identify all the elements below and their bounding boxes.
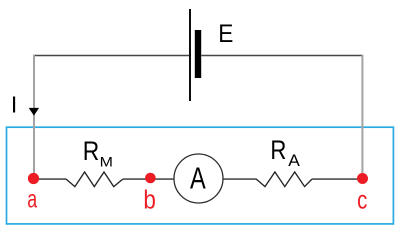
svg-text:I: I [11, 92, 17, 118]
svg-text:c: c [357, 185, 367, 215]
node c (red junction dot) [357, 173, 368, 184]
wire resistor RA to node c [312, 178, 362, 180]
svg-text:A: A [288, 152, 300, 170]
svg-text:b: b [143, 187, 156, 215]
node a (red junction dot) [28, 173, 39, 184]
battery E: long thin plate [189, 9, 191, 101]
wire right vertical [361, 55, 363, 179]
wire top horizontal, right of battery [201, 55, 363, 57]
resistor RA zigzag [256, 172, 312, 187]
blue box (ammeter assembly boundary) [7, 127, 394, 224]
svg-text:a: a [27, 186, 37, 214]
svg-text:M: M [100, 154, 113, 169]
wire top horizontal, left of battery [33, 55, 189, 57]
svg-text:R: R [83, 135, 100, 166]
ammeter A (circle) [174, 154, 223, 203]
wire resistor RM to node b to ammeter [123, 178, 174, 180]
battery E: short thick plate [195, 30, 201, 78]
node b (red junction dot) [145, 173, 156, 184]
wire left vertical [33, 55, 35, 179]
svg-text:R: R [270, 134, 286, 165]
current arrow (down) on left wire [29, 108, 39, 116]
wire node a to resistor RM [33, 178, 66, 180]
svg-text:E: E [218, 20, 233, 48]
svg-text:A: A [190, 161, 206, 195]
wire ammeter to resistor RA [223, 178, 256, 180]
resistor RM zigzag [66, 172, 123, 187]
